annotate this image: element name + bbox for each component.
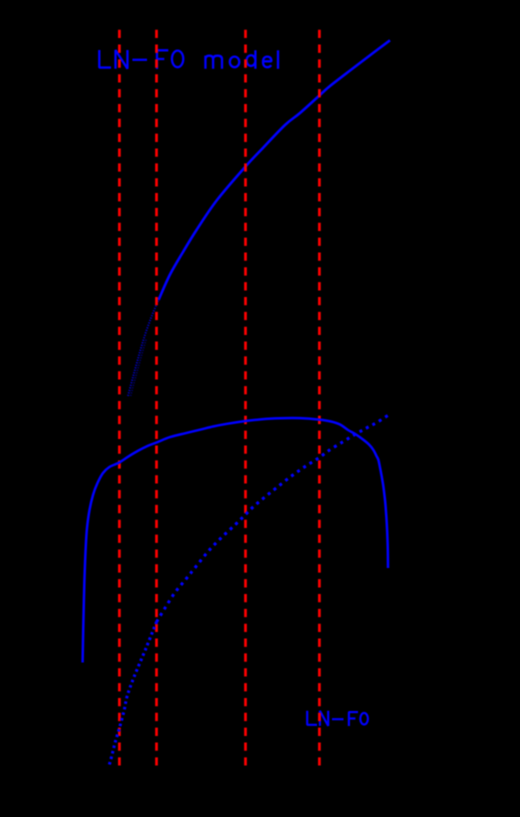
glyph d	[247, 50, 256, 69]
glyph L	[99, 50, 111, 68]
glyph e	[263, 57, 272, 68]
lower solid blue arc curve	[83, 418, 388, 663]
faint dotted tail of upper curve (strand A)	[128, 288, 164, 396]
red dashed lines, lower segment (over label, under curves)	[119, 405, 319, 766]
glyph F	[349, 712, 358, 726]
glyph F	[157, 50, 168, 69]
red dashed line 4 (lower)	[318, 405, 321, 766]
dotted blue curve (steep lower segment)	[109, 622, 156, 765]
glyph 0	[360, 713, 368, 725]
glyph dash	[132, 59, 147, 61]
red dashed line 1 (upper)	[118, 30, 121, 405]
glyph N	[320, 711, 328, 726]
red dashed line 4 (upper)	[318, 30, 321, 405]
red dashed line 2 (upper)	[155, 30, 158, 405]
faint dotted tail of upper curve (strand B)	[131, 339, 147, 396]
glyph L	[307, 711, 317, 725]
dotted blue curve (upper segment)	[157, 415, 390, 623]
glyph N	[116, 50, 128, 69]
lower label: LN-F0	[307, 711, 368, 726]
red dashed lines, upper segment (over top curve and title)	[119, 30, 319, 405]
glyph m	[205, 56, 222, 69]
red dashed line 3 (upper)	[244, 30, 247, 405]
glyph l	[277, 50, 279, 69]
glyph 0	[172, 51, 183, 68]
red dashed line 1 (lower)	[118, 405, 121, 766]
red dashed line 2 (lower)	[155, 405, 158, 766]
upper solid blue curve	[159, 40, 391, 300]
title text: LN-F0 model (stroked Hershey-style glyphs)	[99, 50, 278, 69]
red dashed line 3 (lower)	[244, 405, 247, 766]
glyph dash	[332, 718, 344, 720]
glyph o	[230, 57, 240, 68]
